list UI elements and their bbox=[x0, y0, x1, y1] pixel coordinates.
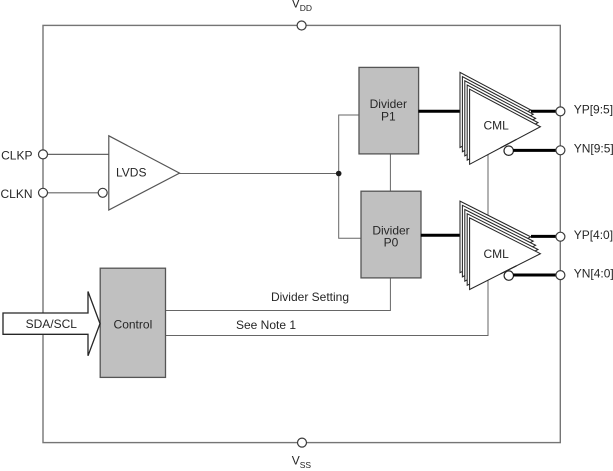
inverting bubble on top CML YN output bbox=[504, 146, 513, 155]
svg-text:CLKN: CLKN bbox=[0, 187, 32, 201]
wire: LVDS output to junction bbox=[180, 173, 339, 175]
svg-text:SDA/SCL: SDA/SCL bbox=[26, 317, 78, 331]
terminal CLKN bbox=[39, 188, 48, 197]
svg-text:YN[4:0]: YN[4:0] bbox=[574, 266, 613, 280]
svg-text:See Note 1: See Note 1 bbox=[236, 318, 296, 332]
wire: divider setting net bbox=[166, 278, 391, 311]
divider P0 bbox=[361, 191, 421, 278]
divider P1 bbox=[359, 67, 419, 153]
inverting bubble on bottom CML YN output bbox=[504, 271, 513, 280]
svg-text:YN[9:5]: YN[9:5] bbox=[574, 141, 613, 155]
buffer U1 LVDS bbox=[109, 136, 180, 210]
buffer stack U3 CML (bottom) bbox=[460, 201, 540, 289]
wire: CLKP input bbox=[48, 153, 109, 155]
terminal VDD bbox=[297, 21, 306, 30]
svg-text:CML: CML bbox=[484, 247, 510, 261]
svg-text:P1: P1 bbox=[381, 110, 396, 124]
terminal YN[4:0] bbox=[556, 271, 565, 280]
wire: divider P1 to divider P0 setting link bbox=[389, 154, 391, 191]
svg-text:LVDS: LVDS bbox=[116, 165, 146, 179]
wire: bottom CML YP output (thick) bbox=[531, 235, 556, 238]
wire: top CML YP output (thick) bbox=[531, 110, 556, 113]
wire: divider P0 output to CML (thick) bbox=[421, 234, 461, 237]
chip outer border bbox=[43, 25, 560, 442]
svg-text:CLKP: CLKP bbox=[1, 148, 32, 162]
terminal YP[9:5] bbox=[556, 107, 565, 116]
svg-text:Control: Control bbox=[114, 318, 153, 332]
svg-text:Divider Setting: Divider Setting bbox=[271, 290, 349, 304]
terminal YN[9:5] bbox=[556, 146, 565, 155]
svg-text:CML: CML bbox=[484, 118, 510, 132]
svg-text:P0: P0 bbox=[384, 235, 399, 249]
edge overlay across bottom bubble bbox=[501, 266, 517, 274]
wire: CLKN input bbox=[48, 192, 99, 194]
inverting bubble on CLKN input bbox=[98, 188, 107, 197]
wire: see note 1 net (control to CML enable, vertical behind CML stacks) bbox=[166, 150, 489, 336]
wire: junction to divider P0 input bbox=[339, 174, 362, 239]
svg-text:YP[4:0]: YP[4:0] bbox=[574, 228, 613, 242]
wire: top CML YN output (thick) bbox=[513, 149, 556, 152]
wire: junction to divider P1 input bbox=[339, 115, 360, 174]
svg-text:YP[9:5]: YP[9:5] bbox=[574, 102, 613, 116]
junction dot bbox=[336, 171, 342, 177]
buffer stack U2 CML (top) bbox=[460, 72, 540, 164]
terminal CLKP bbox=[39, 150, 48, 159]
wire: bottom CML YN output (thick) bbox=[513, 274, 556, 277]
terminal YP[4:0] bbox=[556, 232, 565, 241]
edge overlay across top bubble bbox=[501, 139, 517, 148]
terminal VSS bbox=[298, 438, 307, 447]
control block bbox=[100, 268, 165, 377]
wire: divider P1 output to CML (thick) bbox=[418, 110, 461, 113]
input arrow SDA/SCL bbox=[3, 292, 100, 356]
